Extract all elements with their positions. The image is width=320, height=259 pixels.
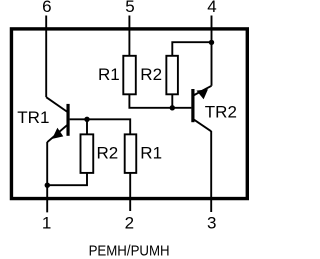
pin 5 lead — [128, 16, 130, 56]
resistor R2 (top, base-emitter TR2) — [166, 56, 178, 95]
TR2 emitter wire — [193, 86, 211, 96]
resistor R2 (lower left) — [81, 134, 94, 173]
TR1 base bar — [66, 104, 69, 136]
svg-text:2: 2 — [125, 214, 134, 233]
svg-text:4: 4 — [207, 0, 216, 16]
wire R1 bottom to TR2 base — [129, 94, 191, 108]
svg-text:1: 1 — [42, 214, 51, 233]
wire R2 bottom to base wire — [171, 94, 173, 108]
svg-text:5: 5 — [125, 0, 134, 16]
svg-text:TR2: TR2 — [205, 103, 237, 122]
svg-text:PEMH/PUMH: PEMH/PUMH — [89, 242, 170, 259]
wire R2 bottom to emitter node — [47, 173, 87, 185]
node B junction dot (emitter TR1 / pin 1) — [45, 183, 50, 188]
TR1 collector wire — [46, 97, 67, 112]
svg-text:TR1: TR1 — [17, 108, 49, 127]
pin 4 lead — [211, 16, 213, 86]
wire TR1 base to node A and R1 — [70, 119, 131, 134]
svg-text:R1: R1 — [140, 143, 162, 162]
pin 2 lead — [129, 173, 131, 211]
TR1 emitter arrow — [52, 128, 63, 139]
svg-text:R2: R2 — [140, 65, 162, 84]
node A junction dot (base TR1) — [84, 117, 89, 122]
node C junction dot (base TR2) — [170, 105, 175, 110]
transistor TR1 — [46, 97, 68, 142]
wire node A to R2 top — [86, 119, 88, 134]
svg-text:R1: R1 — [98, 65, 120, 84]
pin 1 lead — [46, 142, 48, 212]
resistor R1 (top, pin 5 series) — [123, 56, 136, 95]
package outline — [11, 29, 247, 199]
wire R2 top to pin 4 node — [172, 42, 211, 56]
svg-text:3: 3 — [207, 214, 216, 233]
transistor TR2 — [193, 86, 212, 132]
TR2 emitter arrow — [197, 89, 209, 99]
pin 3 lead — [210, 131, 212, 212]
svg-text:R2: R2 — [97, 143, 119, 162]
svg-text:6: 6 — [42, 0, 51, 16]
TR2 collector wire — [193, 119, 211, 131]
node D junction dot (pin 4 / emitter TR2) — [209, 40, 214, 45]
pin 6 lead — [45, 16, 47, 98]
TR2 base bar — [191, 89, 194, 122]
resistor R1 (lower right of left half) — [125, 134, 137, 173]
TR1 emitter wire — [47, 125, 67, 142]
